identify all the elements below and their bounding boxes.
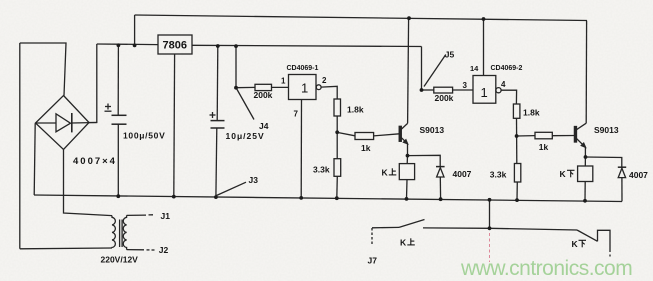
svg-text:14: 14 bbox=[470, 64, 479, 73]
wire gate1 input riser bbox=[235, 46, 237, 88]
resistor R8 3.3k bbox=[514, 164, 520, 201]
svg-text:K: K bbox=[572, 239, 579, 249]
wire main +V rail (7806 line) bbox=[97, 43, 158, 46]
svg-text:1k: 1k bbox=[539, 142, 549, 152]
node dot Q1 emitter bbox=[406, 154, 410, 158]
resistor R7 1k bbox=[517, 132, 575, 139]
bridge inner diode bbox=[36, 113, 97, 132]
diode D5 4007 bbox=[408, 155, 445, 199]
label switch K-up bbox=[400, 238, 415, 248]
label relay K-down bbox=[560, 169, 575, 179]
svg-text:CD4069-1: CD4069-1 bbox=[287, 65, 319, 72]
svg-text:3: 3 bbox=[463, 81, 468, 90]
resistor R3 1k bbox=[337, 132, 399, 139]
node dot rail 7806 gnd bbox=[172, 195, 176, 199]
node dot main rail C1 bbox=[117, 43, 121, 47]
resistor R4 3.3k bbox=[334, 159, 341, 199]
pink artifact dash bbox=[489, 233, 491, 262]
svg-text:10μ/25V: 10μ/25V bbox=[226, 131, 265, 141]
transistor Q1 S9013 bbox=[399, 18, 408, 155]
wire gate2 output bbox=[501, 90, 516, 104]
resistor R6 1.8k bbox=[513, 104, 520, 164]
node dot main rail riser bbox=[133, 44, 137, 48]
wire J1 stub bbox=[127, 214, 153, 217]
svg-text:J5: J5 bbox=[445, 50, 455, 60]
svg-text:220V/12V: 220V/12V bbox=[101, 255, 139, 265]
wire left tall vertical bbox=[19, 43, 21, 249]
node dot R6 R7 junction bbox=[515, 134, 519, 138]
wire top rail bbox=[135, 15, 587, 21]
capacitor C1 100u/50V bbox=[105, 45, 127, 196]
wire 7806 ground pin bbox=[173, 54, 176, 197]
transformer T1 right winding bbox=[123, 215, 126, 249]
node dot rail J3 bbox=[214, 195, 218, 199]
node dot rail switch riser bbox=[488, 198, 492, 202]
svg-text:200k: 200k bbox=[254, 90, 273, 100]
svg-text:1.8k: 1.8k bbox=[347, 105, 364, 115]
node dot rail pin7 bbox=[299, 196, 303, 200]
transformer secondary top loop bbox=[20, 43, 66, 96]
node dot rail R4 bbox=[335, 196, 339, 200]
svg-text:J7: J7 bbox=[368, 256, 378, 266]
wire ground rail riser to switch line bbox=[489, 200, 491, 229]
switch contact K-up bbox=[372, 220, 490, 229]
wire bridge bottom vertex down and to transformer bbox=[64, 150, 113, 216]
wire gate1 pin7 to ground bbox=[300, 100, 302, 198]
svg-text:4007: 4007 bbox=[629, 170, 648, 180]
node dot rail R8 bbox=[515, 198, 519, 202]
svg-text:4007×4: 4007×4 bbox=[73, 156, 117, 167]
switch contact K-down bbox=[490, 228, 611, 258]
capacitor C2 10u/25V bbox=[210, 46, 225, 197]
svg-text:3.3k: 3.3k bbox=[313, 165, 330, 175]
wire riser from main rail to top rail bbox=[134, 15, 136, 45]
svg-text:K: K bbox=[400, 238, 407, 248]
bridge rectifier 4007x4 diamond bbox=[36, 96, 90, 150]
resistor R2 1.8k bbox=[334, 99, 341, 159]
svg-text:3.3k: 3.3k bbox=[490, 170, 507, 180]
transformer T1 left winding bbox=[112, 216, 115, 248]
svg-text:J4: J4 bbox=[259, 121, 269, 131]
label switch K-down bbox=[572, 239, 587, 249]
relay coil K-up bbox=[399, 156, 414, 199]
label relay K-up bbox=[382, 168, 397, 178]
svg-text:4: 4 bbox=[501, 80, 506, 89]
terminal J7 dashed bbox=[371, 228, 373, 246]
svg-text:S9013: S9013 bbox=[420, 125, 445, 135]
svg-text:7806: 7806 bbox=[163, 40, 187, 52]
svg-text:1.8k: 1.8k bbox=[523, 108, 540, 118]
transformer T1 core bbox=[120, 220, 123, 248]
wire gate2 pin14 riser bbox=[483, 19, 485, 76]
svg-text:J2: J2 bbox=[159, 245, 169, 255]
svg-text:7: 7 bbox=[294, 110, 299, 119]
svg-text:100μ/50V: 100μ/50V bbox=[123, 131, 165, 141]
wire bridge left vertex to ground rail bbox=[34, 123, 35, 195]
op-amp U2 CD4069-2 gate box bbox=[473, 76, 501, 104]
svg-text:CD4069-2: CD4069-2 bbox=[491, 65, 523, 72]
node J5 leader bbox=[424, 55, 446, 87]
node dot top rail right bbox=[482, 17, 486, 21]
resistor R1 200k bbox=[236, 84, 288, 90]
node dot gate1 input bbox=[234, 86, 238, 90]
svg-text:1: 1 bbox=[301, 81, 308, 96]
svg-text:1: 1 bbox=[281, 77, 286, 86]
node dot rail relay1 bbox=[405, 197, 409, 201]
wire rail corner down to gate2 input node bbox=[421, 47, 423, 91]
node dot R2 R3 junction bbox=[335, 130, 339, 134]
svg-text:1k: 1k bbox=[361, 143, 371, 153]
node J3 leader bbox=[217, 182, 247, 195]
node dot main rail C2 bbox=[216, 44, 220, 48]
wire bridge right vertex up to main rail bbox=[89, 44, 97, 123]
op-amp U1 CD4069-1 gate box bbox=[289, 75, 322, 100]
svg-text:www.cntronics.com: www.cntronics.com bbox=[460, 257, 632, 280]
svg-text:1: 1 bbox=[481, 85, 488, 100]
svg-text:K: K bbox=[382, 168, 389, 178]
svg-text:4007: 4007 bbox=[453, 169, 472, 179]
wire bottom to transformer winding bbox=[20, 247, 112, 250]
svg-text:2: 2 bbox=[322, 76, 327, 85]
node dot Q2 emitter bbox=[584, 155, 588, 159]
resistor R5 200k bbox=[422, 87, 474, 93]
svg-text:200k: 200k bbox=[435, 93, 454, 103]
transistor Q2 S9013 bbox=[574, 21, 586, 157]
wire gate1 output bbox=[321, 86, 337, 99]
svg-text:J1: J1 bbox=[161, 211, 171, 221]
node dot rail D5 bbox=[439, 197, 443, 201]
svg-text:J3: J3 bbox=[249, 175, 259, 185]
wire J2 stub bbox=[127, 249, 155, 251]
node dot top rail left bbox=[407, 16, 411, 20]
node dot gate2 input J5 bbox=[420, 88, 424, 92]
node dot switch junction bbox=[488, 226, 492, 230]
node J4 leader bbox=[237, 89, 255, 120]
node dot rail relay2 bbox=[583, 199, 587, 203]
node dot main rail gate1 bbox=[234, 44, 238, 48]
svg-text:K: K bbox=[560, 169, 567, 179]
wire bottom ground rail bbox=[34, 195, 622, 202]
node dot rail C1 bottom bbox=[116, 194, 120, 198]
diode D6 4007 bbox=[586, 157, 627, 201]
regulator U3 7806 box bbox=[158, 35, 192, 54]
relay coil K-down bbox=[578, 157, 593, 201]
svg-text:S9013: S9013 bbox=[594, 125, 619, 135]
